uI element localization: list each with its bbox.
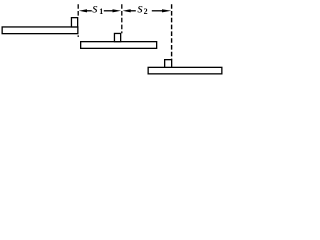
dashed extension line at block position 1 (short dash below plank 1) [77, 35, 79, 37]
plank position 2 (middle board) [81, 42, 157, 49]
dimension s1: right arrow [104, 10, 114, 12]
svg-text:1: 1 [99, 7, 103, 16]
dimension s2: left arrow [129, 10, 136, 12]
dimension s1: left arrow [85, 10, 92, 12]
dashed extension line at block position 3 [171, 4, 173, 59]
block on plank position 1 [71, 18, 77, 27]
svg-text:s: s [137, 1, 143, 16]
plank position 3 (bottom right board) [148, 67, 222, 74]
block on plank position 3 [165, 60, 172, 68]
svg-text:s: s [92, 1, 98, 16]
plank position 1 (top left board) [2, 27, 78, 34]
svg-text:2: 2 [144, 7, 148, 16]
dashed extension line at block position 2 [121, 4, 123, 33]
dashed extension line at block position 1 (upper part) [77, 4, 79, 17]
dimension s2: right arrow [152, 10, 164, 12]
block on plank position 2 [114, 33, 120, 41]
